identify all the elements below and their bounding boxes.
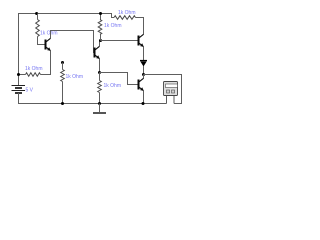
node junction top of R2 bbox=[35, 12, 38, 15]
node junction R4 bottom rail bbox=[61, 102, 64, 105]
svg-text:1k Ohm: 1k Ohm bbox=[40, 31, 58, 37]
wire Q1 emitter down to R1 bbox=[41, 51, 51, 75]
diode D1 bbox=[140, 61, 147, 67]
wire right branch down bbox=[181, 74, 183, 104]
wire battery bottom to ground rail bbox=[19, 93, 167, 104]
node junction Q2 emitter R5 bbox=[98, 71, 101, 74]
wire R5 top lead bbox=[99, 73, 101, 81]
svg-text:5 V: 5 V bbox=[26, 87, 34, 93]
node junction diode Q4 collector meter branch bbox=[142, 73, 145, 76]
wire R3 bottom lead bbox=[100, 35, 102, 41]
wire Q4 emitter down to rail bbox=[143, 91, 145, 104]
resistor R2 1k Ohm bbox=[36, 20, 40, 37]
wire Q2 collector up to node bbox=[99, 41, 101, 47]
node junction Q4 emitter rail bbox=[142, 102, 145, 105]
wire R6 right lead down to Q3 collector bbox=[136, 18, 144, 35]
wire Q1 collector up and across to Q2 base bbox=[51, 31, 95, 53]
wire R2 top lead bbox=[37, 14, 39, 20]
ground symbol bbox=[93, 104, 106, 114]
svg-text:1k Ohm: 1k Ohm bbox=[25, 66, 43, 72]
node junction battery plus R1 bbox=[17, 73, 20, 76]
resistor R1 1k Ohm bbox=[26, 73, 41, 77]
svg-text:1k Ohm: 1k Ohm bbox=[66, 74, 84, 80]
resistor R5 1k Ohm bbox=[98, 81, 102, 93]
multimeter XMM1 bbox=[164, 82, 178, 104]
transistor Q1 bbox=[46, 38, 51, 51]
resistor R4 1k Ohm bbox=[61, 70, 65, 82]
wire Q2 emitter down to node bbox=[99, 59, 101, 73]
wire node down to Q4 collector bbox=[143, 75, 145, 79]
svg-text:1k Ohm: 1k Ohm bbox=[118, 10, 136, 16]
wire node to Q3 base bbox=[101, 40, 138, 42]
wire R3 top lead bbox=[100, 14, 102, 20]
wire R1 left lead bbox=[19, 74, 26, 76]
wire top rail jog to R6 bbox=[112, 13, 115, 18]
wire R4 top lead bbox=[62, 63, 64, 70]
wire right branch to meter right leg bbox=[174, 103, 182, 105]
node junction R5 ground rail bbox=[98, 102, 101, 105]
transistor Q3 bbox=[139, 34, 144, 47]
wire Q3 emitter down to diode bbox=[143, 47, 145, 61]
node dot top of R4 bbox=[61, 61, 64, 64]
wire R5 bottom lead bbox=[99, 93, 101, 104]
battery V1 bbox=[12, 86, 26, 94]
wire Q2 emitter node across and down to Q4 base bbox=[100, 73, 139, 85]
svg-text:1k Ohm: 1k Ohm bbox=[104, 83, 122, 89]
transistor Q2 diode-connected bbox=[95, 46, 100, 59]
wire node right toward meter loop bbox=[144, 74, 182, 76]
wire diode cathode to node bbox=[143, 66, 145, 75]
wire top rail bbox=[18, 13, 112, 15]
resistor R6 1k Ohm bbox=[114, 16, 136, 20]
node junction R3 bottom Q2 collector Q3 base bbox=[99, 39, 102, 42]
wire R2 bottom to Q1 base bbox=[38, 37, 46, 45]
transistor Q4 bbox=[139, 78, 144, 91]
resistor R3 1k Ohm bbox=[98, 20, 102, 35]
wire R4 bottom lead bbox=[62, 82, 64, 104]
wire left rail bbox=[18, 13, 20, 86]
node junction top of R3 bbox=[99, 12, 102, 15]
svg-text:1k Ohm: 1k Ohm bbox=[104, 23, 122, 29]
